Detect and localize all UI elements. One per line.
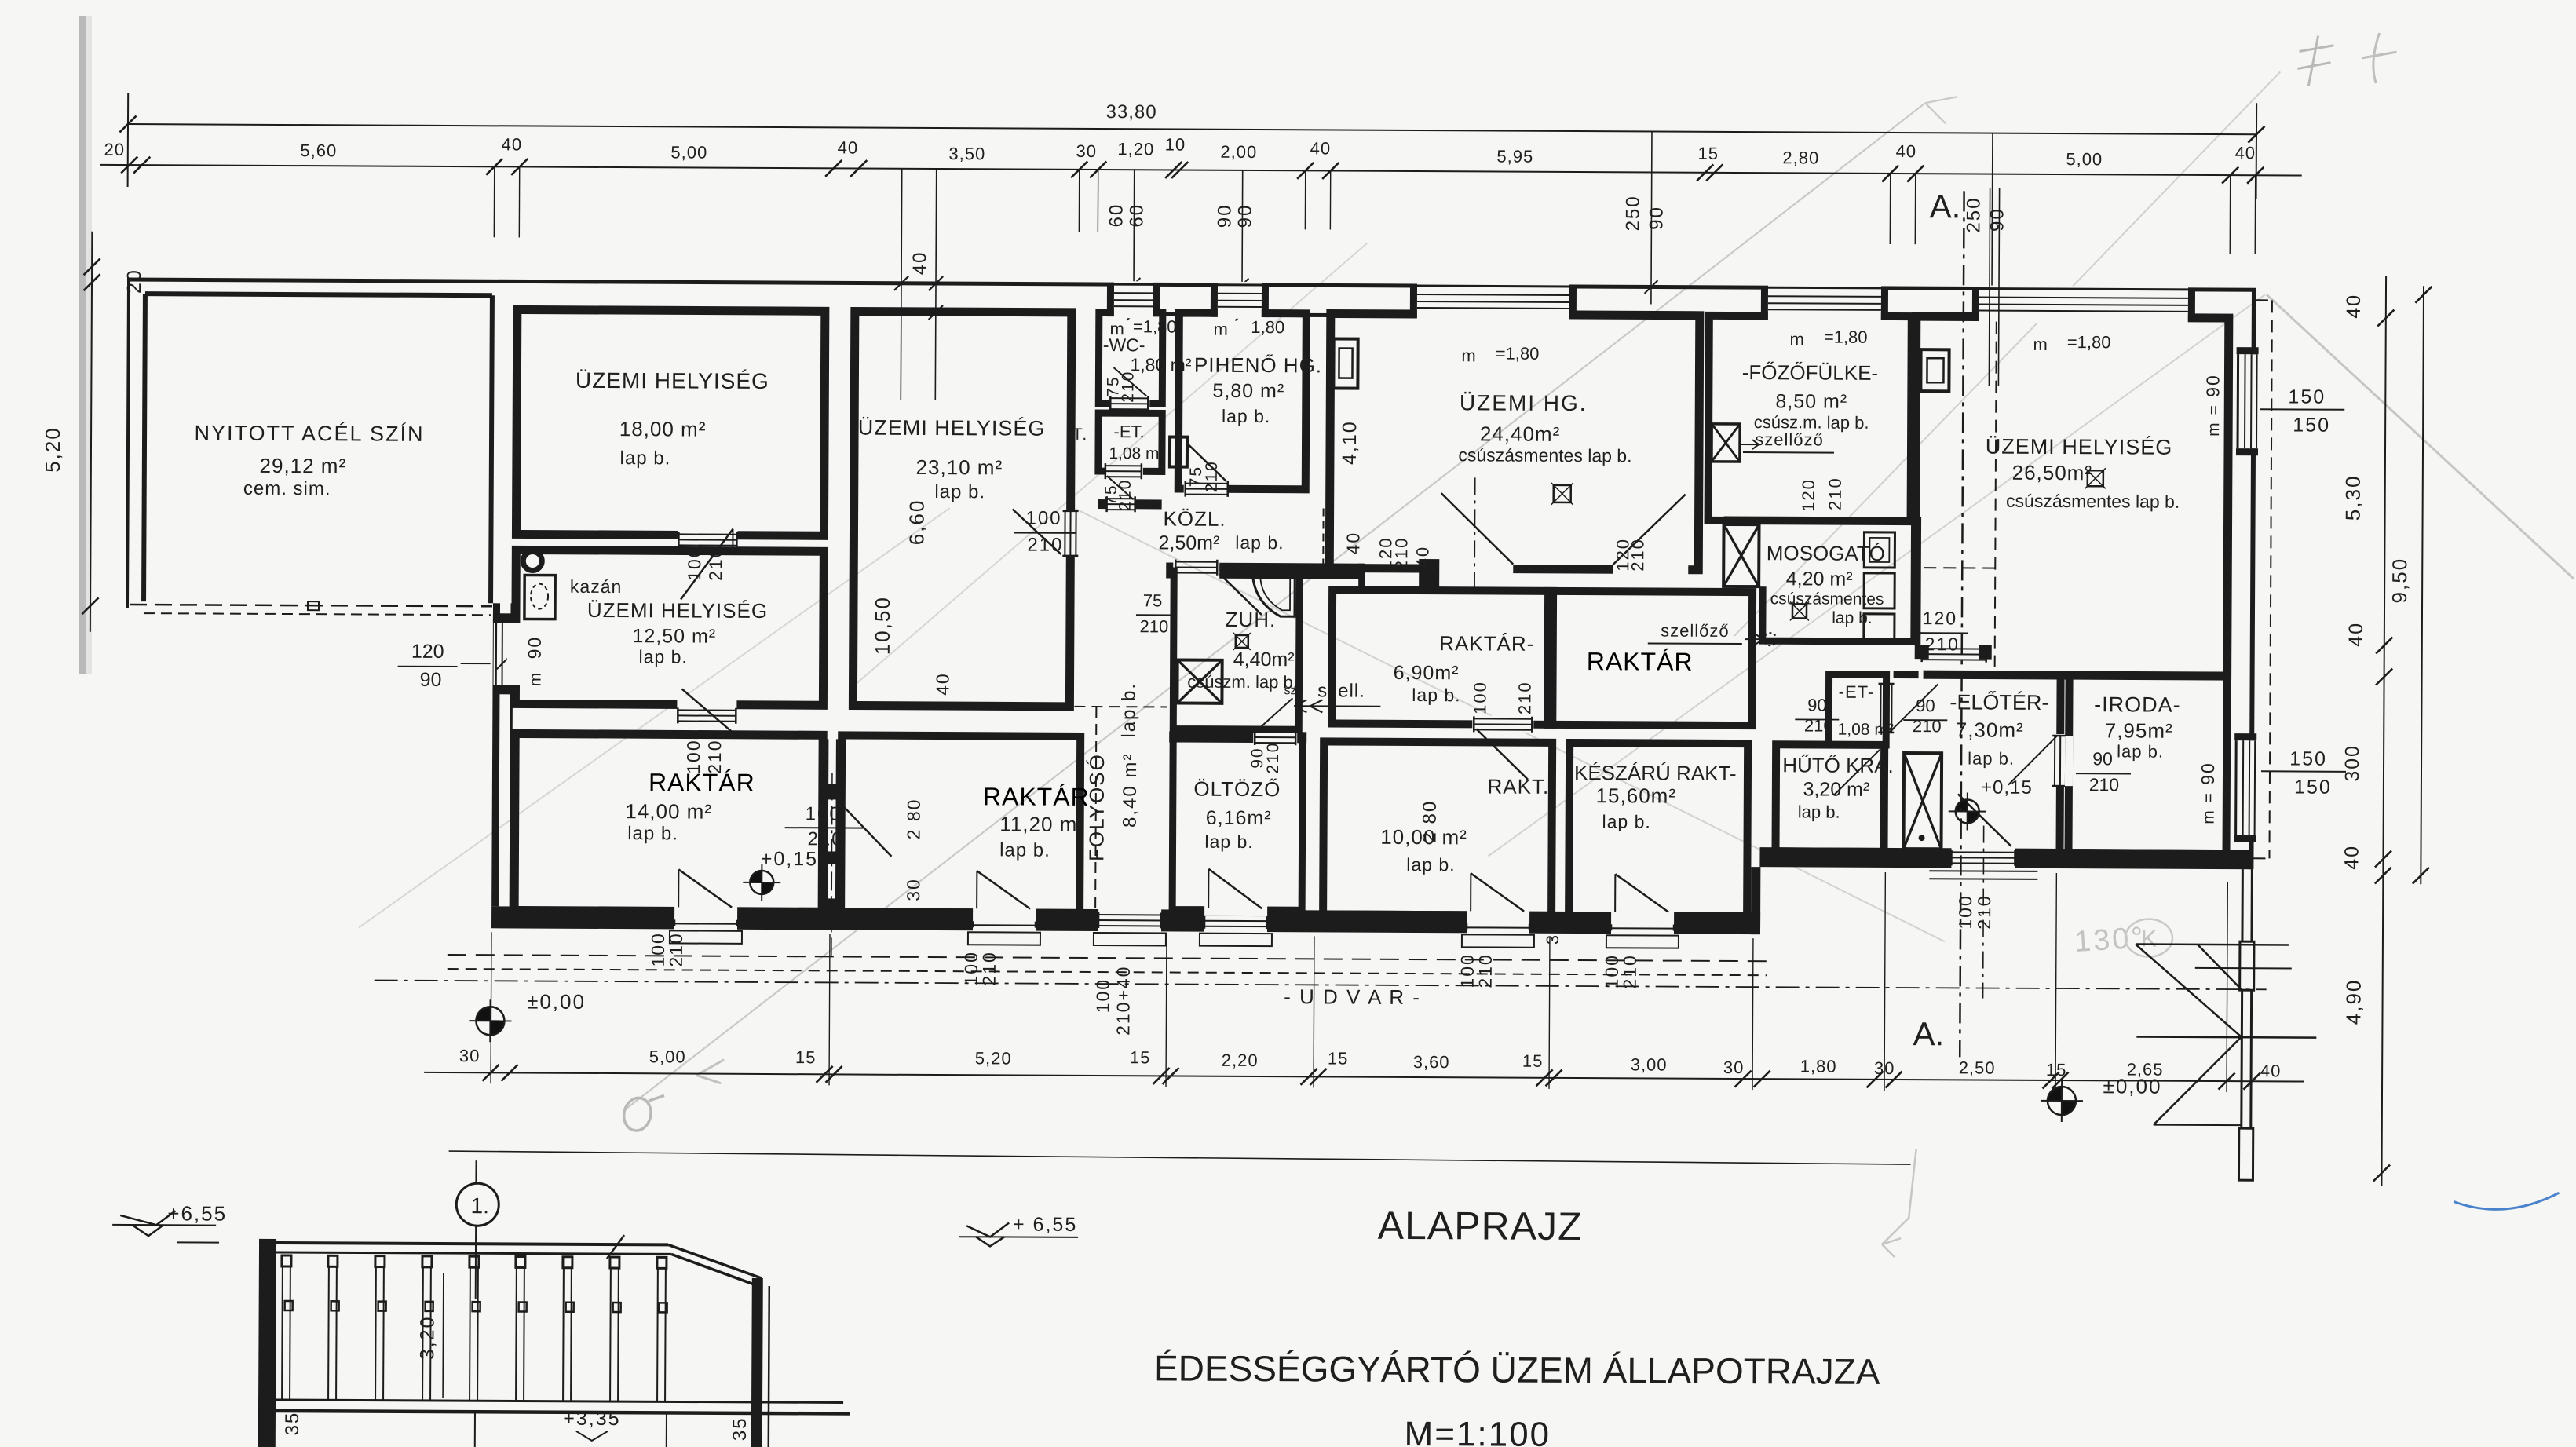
- stub walls below ET with door: [1098, 499, 1107, 509]
- door ET diagonal: [1889, 684, 1938, 733]
- room OLTOZO: [1172, 737, 1303, 911]
- svg-text:cem. sim.: cem. sim.: [243, 478, 331, 500]
- svg-text:100: 100: [806, 803, 842, 824]
- svg-text:90: 90: [524, 636, 545, 660]
- svg-text:40: 40: [2340, 845, 2362, 870]
- svg-text:15: 15: [1522, 1051, 1544, 1071]
- svg-text:150: 150: [2289, 747, 2327, 769]
- svg-text:lap b.: lap b.: [1235, 532, 1284, 553]
- svg-text:T.: T.: [1072, 426, 1088, 444]
- elevation right post: [751, 1278, 763, 1447]
- dim riser pair at 2841: [2229, 175, 2231, 254]
- south wall band right wing: [1759, 847, 2253, 869]
- shed dashed small center post: [308, 601, 319, 610]
- svg-text:11,20 m²: 11,20 m²: [999, 812, 1085, 836]
- svg-text:NYITOTT ACÉL SZÍN: NYITOTT ACÉL SZÍN: [194, 421, 424, 445]
- svg-text:15: 15: [795, 1047, 817, 1067]
- svg-text:csúszásmentes: csúszásmentes: [1770, 590, 1884, 608]
- elevation symbol 0.00 right: [2048, 1087, 2062, 1101]
- svg-text:-ET-: -ET-: [1839, 682, 1875, 702]
- door WC diagonal: [1113, 367, 1146, 396]
- svg-text:210: 210: [1116, 479, 1135, 511]
- room ELOTER: [1892, 671, 2064, 857]
- dim risers 40 pair left of WC: [901, 169, 901, 400]
- svg-text:-IRODA-: -IRODA-: [2094, 692, 2181, 717]
- dim riser 250/90 at section A: [1992, 133, 1993, 317]
- svg-text:+6,55: +6,55: [167, 1201, 227, 1225]
- svg-text:210: 210: [979, 951, 999, 986]
- wall 26.50 bottom left segment: [1915, 645, 1929, 659]
- dim riser WC window 60/60: [1133, 170, 1135, 300]
- svg-text:ALAPRAJZ: ALAPRAJZ: [1378, 1204, 1583, 1248]
- svg-text:90: 90: [2198, 762, 2218, 785]
- svg-text:120: 120: [1799, 478, 1818, 512]
- svg-text:ÜZEMI HELYISÉG: ÜZEMI HELYISÉG: [1986, 435, 2173, 459]
- door jamb block 24.40 left door: [1419, 559, 1439, 594]
- room ET right wing: [1829, 674, 1886, 745]
- svg-text:210: 210: [1027, 535, 1063, 556]
- svg-text:15: 15: [2046, 1060, 2067, 1080]
- svg-text:100: 100: [1025, 508, 1061, 529]
- svg-text:=1,80: =1,80: [2067, 332, 2111, 352]
- svg-text:3,60: 3,60: [1413, 1052, 1450, 1072]
- svg-text:PIHENŐ HG.: PIHENŐ HG.: [1194, 353, 1322, 378]
- svg-text:210: 210: [1804, 715, 1833, 735]
- svg-text:K: K: [2141, 926, 2157, 952]
- svg-text:210: 210: [1515, 681, 1534, 714]
- left dim ticks: [84, 258, 100, 275]
- svg-text:A.: A.: [1913, 1015, 1944, 1052]
- pencil line long bottom-left to A: [627, 97, 1925, 1114]
- room RAKTAR 6.90: [1332, 590, 1553, 725]
- svg-text:40: 40: [2235, 143, 2256, 163]
- overall dim line 33,80: [128, 124, 2256, 134]
- svg-text:=1,80: =1,80: [1824, 327, 1868, 347]
- svg-text:4,40m²: 4,40m²: [1233, 649, 1295, 671]
- dim extension verticals top ends: [127, 93, 130, 187]
- room PIHENO HG: [1178, 313, 1306, 490]
- dim riser PIHENO window 90/90: [1241, 170, 1244, 301]
- svg-text:5,00: 5,00: [670, 142, 707, 162]
- svg-text:±0,00: ±0,00: [2103, 1074, 2162, 1098]
- external stair bottom right arrow: [2135, 945, 2242, 1038]
- room RAKTAR 14.00: [514, 733, 823, 912]
- garden wall below IRODA corner: [2241, 869, 2242, 1180]
- svg-text:3,50: 3,50: [948, 144, 985, 163]
- room FOZOFULKE: [1708, 316, 1912, 521]
- svg-text:20: 20: [104, 140, 126, 159]
- window IRODA right wall: [2231, 740, 2256, 835]
- wall niche 26.50: [1920, 349, 1949, 391]
- svg-text:30: 30: [1723, 1058, 1745, 1077]
- step outside door 2057: [1606, 935, 1679, 948]
- dashed lines inside 26.50: [1995, 322, 1997, 667]
- dim riser pair at 1375: [1078, 170, 1080, 232]
- svg-text:150: 150: [2294, 776, 2332, 798]
- svg-text:210: 210: [1203, 460, 1221, 492]
- MOSOGATO floor drain: [1792, 604, 1807, 618]
- svg-text:MOSOGATÓ: MOSOGATÓ: [1767, 541, 1885, 565]
- svg-text:+ 6,55: + 6,55: [1013, 1214, 1077, 1236]
- door opening south wall 1539: [1204, 908, 1267, 934]
- svg-text:lap b.: lap b.: [620, 448, 671, 469]
- svg-text:1,20: 1,20: [1117, 139, 1154, 159]
- floor drain 24.40: [1554, 485, 1571, 502]
- west outer wall band below shed: [491, 603, 500, 906]
- svg-text:210: 210: [1620, 954, 1640, 989]
- room RAKTAR clean unnumbered: [1547, 591, 1752, 725]
- svg-text:250: 250: [1963, 196, 1984, 232]
- window 120/90 west wall lines: [495, 623, 497, 685]
- svg-text:lap b.: lap b.: [1602, 811, 1650, 831]
- door stub diagonal: [1107, 476, 1134, 499]
- ZUH corner sink: [1252, 572, 1295, 616]
- window WC top: [1114, 281, 1153, 318]
- svg-text:-ELŐTÉR-: -ELŐTÉR-: [1949, 689, 2048, 714]
- window 26.50 right wall: [2233, 354, 2257, 448]
- right dim chain outer line 9,50: [2421, 286, 2424, 884]
- svg-text:60: 60: [1105, 203, 1127, 228]
- svg-text:m: m: [527, 671, 545, 687]
- svg-text:90: 90: [1234, 204, 1255, 228]
- svg-text:2,20: 2,20: [1222, 1051, 1259, 1070]
- svg-text:15: 15: [1698, 144, 1719, 163]
- svg-text:ÜZEMI HELYISÉG: ÜZEMI HELYISÉG: [858, 416, 1046, 440]
- svg-text:kazán: kazán: [570, 576, 623, 597]
- svg-text:6,90m²: 6,90m²: [1394, 662, 1460, 684]
- svg-text:2,50: 2,50: [1959, 1058, 1996, 1077]
- left dim chain line: [90, 232, 92, 632]
- ZUH floor drain: [1236, 635, 1248, 648]
- svg-text:5,00: 5,00: [649, 1047, 686, 1066]
- svg-text:35: 35: [282, 1412, 303, 1436]
- door 12.50 diagonal: [681, 689, 733, 733]
- FOLYOSO dashed ceiling lines: [1095, 707, 1096, 908]
- ZUH shower square with X: [1177, 660, 1222, 703]
- svg-text:15: 15: [1130, 1047, 1151, 1067]
- xbox shaft ELOTER-HUTO: [1904, 753, 1942, 849]
- svg-text:-KÉSZÁRÚ RAKT-: -KÉSZÁRÚ RAKT-: [1567, 761, 1736, 785]
- svg-text:RAKT.: RAKT.: [1487, 774, 1549, 798]
- dashed eaves line outside right wall: [2269, 300, 2271, 858]
- right dim chain inner ticks: [2377, 310, 2394, 327]
- svg-text:m: m: [1461, 345, 1475, 365]
- dash axis through 24.40 left door: [1474, 477, 1476, 591]
- svg-text:40: 40: [2260, 1061, 2282, 1080]
- pencil line right up crease: [1488, 290, 2265, 860]
- door opening south wall 2057: [1611, 910, 1674, 935]
- dim ticks top chain: [121, 156, 137, 173]
- scanner edge band left: [79, 16, 86, 674]
- svg-text:2,00: 2,00: [1220, 142, 1257, 162]
- svg-text:15: 15: [1328, 1048, 1349, 1068]
- svg-text:75: 75: [1143, 590, 1163, 610]
- spot level +6,55 left: [120, 1211, 175, 1225]
- svg-text:26,50m²: 26,50m²: [2012, 461, 2093, 485]
- elevation symbol 0.00 left: [476, 1007, 490, 1021]
- spot level +6,55 right: [966, 1222, 1009, 1237]
- svg-text:150: 150: [2293, 414, 2330, 436]
- elevation mid square blocks: [285, 1301, 293, 1310]
- room UZEMI HG 24.40: [1329, 313, 1700, 569]
- door 11.20 exterior diagonal: [976, 871, 977, 908]
- step outside door 864: [670, 930, 742, 943]
- elevation below-chord verticals: [267, 1411, 269, 1447]
- door 6.90 diagonal: [1476, 729, 1528, 779]
- courtyard dashed lines: [448, 955, 1767, 961]
- svg-text:lap b.: lap b.: [1798, 802, 1840, 821]
- svg-text:30: 30: [1076, 141, 1098, 161]
- svg-text:A.: A.: [1930, 188, 1961, 225]
- door ET to HUTO diagonal: [1834, 750, 1880, 795]
- svg-text:ÜZEMI HELYISÉG: ÜZEMI HELYISÉG: [575, 368, 769, 393]
- room UZEMI HELYISEG 18.00: [516, 309, 824, 535]
- door opening south wall 864: [674, 905, 737, 930]
- niche box with 2: [1170, 437, 1187, 466]
- svg-text:=1,80: =1,80: [1496, 344, 1540, 364]
- MOSOGATO shaft xbox: [1723, 524, 1759, 586]
- room WC: [1098, 312, 1163, 404]
- room RAKTAR 11.20: [841, 735, 1080, 912]
- room KESZARU RAKT 15.60: [1569, 743, 1748, 916]
- svg-text:±0,00: ±0,00: [527, 989, 586, 1013]
- door OLTOZO exterior diagonal: [1208, 869, 1209, 908]
- door 14.00-11.20 dash axis: [831, 773, 832, 961]
- svg-text:90: 90: [1916, 696, 1935, 715]
- svg-text:csúszásmentes lap b.: csúszásmentes lap b.: [2006, 491, 2180, 512]
- svg-text:210: 210: [1825, 477, 1845, 510]
- elevation top square blocks: [282, 1255, 291, 1266]
- svg-text:6,60: 6,60: [904, 499, 928, 546]
- svg-text:40: 40: [932, 672, 952, 696]
- door 18.00 to 12.50 sills: [678, 533, 736, 535]
- svg-text:RAKTÁR: RAKTÁR: [983, 782, 1090, 811]
- elevation dim 3,20: [442, 1273, 444, 1398]
- svg-text:5,00: 5,00: [2066, 149, 2103, 169]
- svg-text:2 80: 2 80: [1420, 800, 1441, 843]
- svg-text:4,90: 4,90: [2341, 978, 2365, 1025]
- svg-text:210: 210: [666, 932, 686, 967]
- svg-text:150: 150: [2288, 386, 2326, 407]
- svg-text:lap b.: lap b.: [1832, 609, 1872, 627]
- svg-text:40: 40: [1896, 141, 1917, 161]
- svg-text:35: 35: [729, 1416, 751, 1441]
- room ZUH: [1173, 568, 1299, 730]
- svg-text:30: 30: [1543, 923, 1562, 945]
- svg-text:sz: sz: [1284, 684, 1296, 697]
- door 24.40 right diagonal: [1613, 494, 1685, 565]
- svg-text:210: 210: [1974, 894, 1994, 930]
- svg-text:40: 40: [1412, 546, 1432, 568]
- svg-text:1,80: 1,80: [1251, 317, 1284, 337]
- svg-text:RAKTÁR: RAKTÁR: [1587, 647, 1694, 676]
- elevation symbol +0.15 left wing: [750, 871, 762, 882]
- thin separator line above titles: [449, 1151, 1911, 1164]
- steps outside entrance: [1929, 870, 2037, 872]
- svg-text:1.: 1.: [471, 1193, 490, 1218]
- svg-text:33,80: 33,80: [1105, 101, 1156, 122]
- svg-text:210: 210: [1264, 742, 1282, 774]
- door corridor sills to ELOTER: [1922, 648, 1986, 649]
- svg-text:210: 210: [1391, 537, 1411, 571]
- svg-text:40: 40: [1343, 532, 1363, 555]
- svg-text:+3,35: +3,35: [563, 1408, 620, 1430]
- right dim chain inner line: [2381, 276, 2386, 1186]
- svg-text:4,10: 4,10: [1339, 420, 1361, 465]
- svg-text:5,20: 5,20: [41, 426, 64, 473]
- svg-text:3,00: 3,00: [1631, 1054, 1668, 1074]
- door opening south wall 1244: [973, 907, 1036, 932]
- svg-text:210: 210: [1628, 538, 1647, 572]
- step outside door 1244: [968, 932, 1040, 945]
- blue pen arc bottom right: [2454, 1192, 2559, 1209]
- svg-text:40: 40: [1310, 138, 1332, 158]
- svg-text:8,50 m²: 8,50 m²: [1775, 390, 1847, 412]
- svg-text:+0,15: +0,15: [761, 848, 818, 870]
- bottom dim chain line: [424, 1072, 2304, 1082]
- svg-text:300: 300: [2341, 744, 2363, 782]
- south wall band lower wing: [491, 906, 1760, 934]
- door KESZARU exterior diagonal: [1614, 874, 1616, 912]
- svg-text:210+40: 210+40: [1113, 965, 1133, 1036]
- svg-text:KÖZL.: KÖZL.: [1163, 506, 1226, 530]
- door 23.10 diagonal: [1012, 510, 1061, 554]
- svg-text:lap b.: lap b.: [999, 839, 1050, 861]
- svg-text:40: 40: [909, 251, 930, 276]
- svg-text:210: 210: [1475, 953, 1496, 988]
- window label 150/150 upper: [2260, 408, 2344, 411]
- svg-text:3,20: 3,20: [416, 1315, 438, 1360]
- svg-text:210: 210: [1139, 616, 1168, 636]
- door ELOTER-IRODA sills: [2054, 736, 2055, 786]
- room RAKT 10.00: [1323, 741, 1552, 915]
- svg-text:m =: m =: [2205, 404, 2223, 437]
- outer wall thin contour top: [127, 280, 2256, 290]
- svg-text:100: 100: [1955, 894, 1975, 930]
- svg-text:210: 210: [1913, 716, 1942, 736]
- svg-text:lap b.: lap b.: [1118, 682, 1139, 738]
- svg-text:210: 210: [2089, 774, 2120, 795]
- room UZEMI HELYISEG 26.50: [1915, 316, 2229, 676]
- svg-text:1,08 m²: 1,08 m²: [1109, 444, 1164, 462]
- elevation left post: [258, 1239, 276, 1447]
- svg-text:lap b.: lap b.: [1204, 831, 1253, 852]
- svg-text:90: 90: [1807, 695, 1827, 714]
- svg-text:30: 30: [459, 1046, 480, 1065]
- svg-text:9,50: 9,50: [2388, 557, 2411, 604]
- door 14.00-11.20 diagonal: [839, 802, 891, 856]
- entrance opening right wing south: [1951, 846, 2015, 869]
- pencil sigma arrow bottom: [621, 1095, 654, 1133]
- door 24.40 left diagonal: [1441, 493, 1513, 564]
- room UZEMI HELYISEG 23.10: [853, 312, 1071, 707]
- svg-text:60: 60: [1126, 203, 1147, 228]
- window label 150/150 lower: [2261, 770, 2346, 773]
- svg-text:5,95: 5,95: [1496, 147, 1533, 166]
- OLTOZO top wall with door to shaft: [1169, 731, 1253, 743]
- svg-text:24,40m²: 24,40m²: [1480, 422, 1561, 446]
- svg-text:40: 40: [838, 137, 859, 157]
- svg-text:2 80: 2 80: [904, 798, 924, 839]
- courtyard dash-dot line: [375, 981, 2267, 990]
- svg-text:1,08 m²: 1,08 m²: [1838, 721, 1894, 739]
- room HUTO KRA: [1775, 744, 1884, 852]
- step outside door 1873: [1462, 934, 1534, 947]
- svg-text:90: 90: [1646, 206, 1667, 230]
- svg-text:lap b.: lap b.: [1222, 406, 1270, 426]
- svg-text:5,30: 5,30: [2341, 474, 2365, 521]
- svg-text:210: 210: [1119, 371, 1137, 403]
- svg-text:12,50 m²: 12,50 m²: [632, 625, 716, 648]
- step outside door 1404: [1094, 933, 1166, 945]
- svg-text:4,20 m²: 4,20 m²: [1786, 568, 1853, 590]
- svg-text:14,00 m²: 14,00 m²: [625, 799, 712, 824]
- svg-text:40: 40: [502, 134, 523, 154]
- svg-text:-ET.: -ET.: [1113, 422, 1144, 441]
- svg-text:szell.: szell.: [1317, 680, 1365, 701]
- door opening south wall 1404: [1098, 908, 1161, 933]
- step wall between wings: [1751, 867, 1760, 934]
- door ELOTER-IRODA diagonal: [2008, 736, 2057, 785]
- svg-text:szellőző: szellőző: [1661, 621, 1730, 641]
- pencil line to top-right scribble: [1734, 69, 2281, 638]
- svg-text:7,95m²: 7,95m²: [2105, 718, 2173, 742]
- svg-text:-WC-: -WC-: [1103, 334, 1145, 355]
- door opening south wall 1873: [1467, 909, 1529, 934]
- section line top double ticks: [1989, 188, 1990, 386]
- svg-text:90: 90: [1214, 203, 1235, 228]
- elevation bottom chord: [258, 1400, 843, 1403]
- svg-text:90: 90: [420, 669, 442, 691]
- svg-text:RAKTÁR: RAKTÁR: [649, 768, 755, 797]
- door 14.00 exterior diagonal: [678, 869, 679, 907]
- inner top wall line segments across cavities: [1160, 312, 1185, 316]
- svg-text:lap b.: lap b.: [1968, 748, 2015, 768]
- room NYITOTT ACEL SZIN inner outline: [145, 294, 492, 295]
- svg-text:90: 90: [2202, 374, 2223, 397]
- svg-text:lap b.: lap b.: [1406, 854, 1455, 875]
- svg-text:6,16m²: 6,16m²: [1206, 807, 1272, 829]
- svg-text:szellőző: szellőző: [1755, 429, 1824, 449]
- window 24.40 top: [1417, 283, 1569, 320]
- svg-text:lap b.: lap b.: [627, 823, 678, 844]
- window FOZOFULKE top: [1768, 284, 1881, 322]
- kazan box with dashed coil: [524, 575, 555, 619]
- elevation symbol +0.15 right: [1956, 799, 1968, 811]
- elevation posts: [281, 1266, 283, 1400]
- svg-text:10: 10: [1165, 134, 1186, 154]
- svg-text:M=1:100: M=1:100: [1405, 1415, 1551, 1447]
- svg-text:30: 30: [903, 878, 923, 901]
- svg-text:100: 100: [1470, 681, 1489, 714]
- pencil scribble top-right F: [2297, 36, 2333, 86]
- svg-text:5,80 m²: 5,80 m²: [1212, 380, 1284, 402]
- svg-text:=1,80: =1,80: [1133, 316, 1177, 336]
- svg-text:10,50: 10,50: [871, 596, 894, 655]
- pencil line mid-down crease: [1073, 509, 1947, 941]
- szellozo shaft box FOZO: [1712, 424, 1740, 462]
- door OLTOZO-shaft diagonal: [1256, 698, 1292, 731]
- door 23.10 sills right edge: [1064, 511, 1065, 556]
- svg-text:15,60m²: 15,60m²: [1596, 784, 1677, 808]
- svg-text:RAKTÁR-: RAKTÁR-: [1439, 631, 1534, 656]
- svg-text:18,00 m²: 18,00 m²: [619, 417, 707, 441]
- svg-text:1,80: 1,80: [1800, 1056, 1837, 1076]
- svg-text:210: 210: [1925, 634, 1960, 654]
- room ET upper small: [1098, 413, 1162, 471]
- room MOSOGATO: [1723, 520, 1918, 641]
- svg-text:ÜZEMI HG.: ÜZEMI HG.: [1460, 390, 1588, 415]
